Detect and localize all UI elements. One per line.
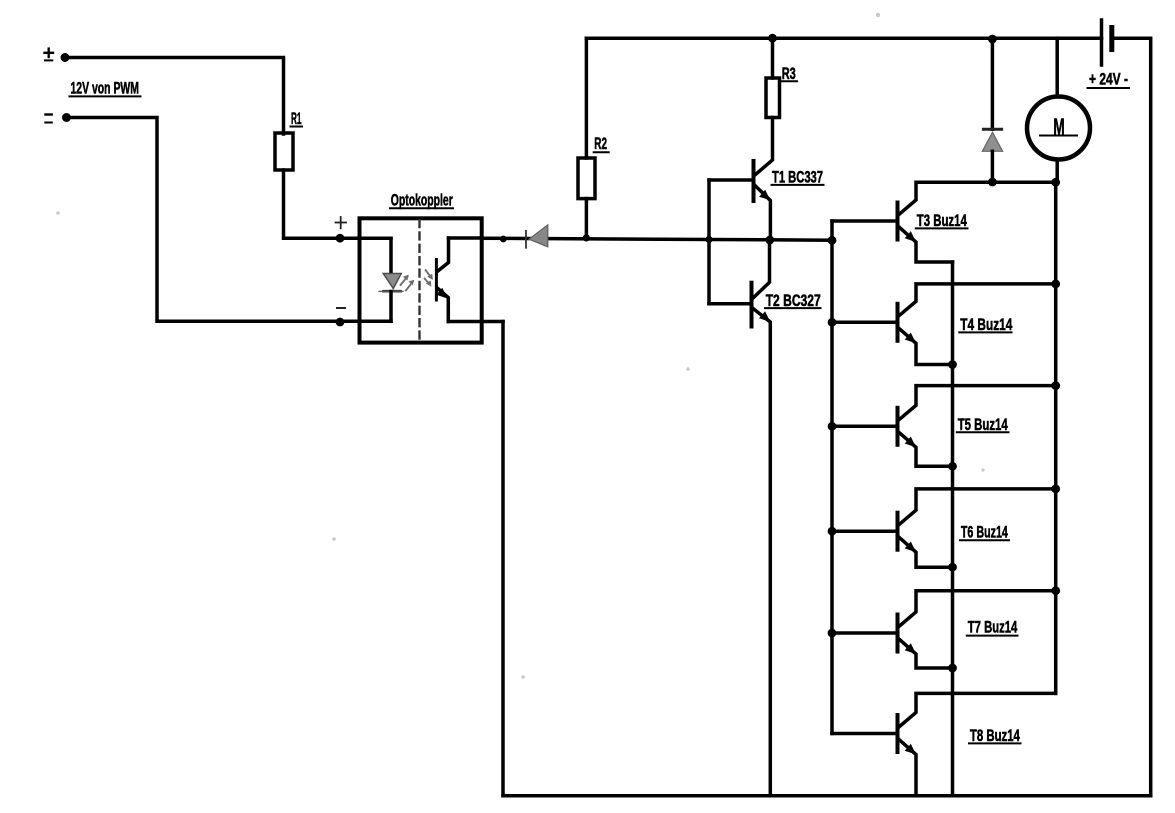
node drain rail dots (1051, 178, 1060, 595)
transistor T2 base wire (709, 302, 752, 306)
diode D2 cathode bar (525, 231, 527, 248)
node emitter output junction (765, 236, 774, 245)
wire base bus T1-T2 (707, 180, 711, 304)
resistor R3 top wire (771, 38, 775, 78)
node T7 base dot (828, 629, 837, 638)
transistor T1 emitter (756, 186, 771, 239)
MOSFET T7 group (832, 591, 1056, 668)
phototransistor emitter (438, 289, 449, 322)
node R2 junction dot (583, 234, 590, 241)
node optocoupler anode pin dot (336, 234, 345, 243)
transistor T2 collector down (753, 309, 770, 796)
node D3 bottom dot (988, 178, 997, 187)
wire phototransistor collector to output (449, 236, 483, 240)
node D3 top rail dot (988, 35, 997, 44)
resistor R1 (275, 133, 293, 170)
MOSFET T6 group (832, 489, 1056, 567)
motor M bottom wire (1055, 160, 1059, 183)
label Optokoppler (391, 191, 453, 210)
wire phototransistor emitter out of box (448, 320, 503, 324)
terminal + (12V input plus) (45, 49, 54, 61)
wire from + terminal to R1 top (65, 58, 284, 135)
wire bottom rail (503, 794, 1151, 798)
svg-text:T7 Buz14: T7 Buz14 (968, 618, 1018, 637)
label T8 Buz14 (970, 726, 1020, 745)
battery B1 positive plate (1100, 20, 1104, 65)
svg-text:+ 24V -: + 24V - (1089, 69, 1128, 88)
transistor T1 base bar (752, 161, 756, 201)
label T5 Buz14 (958, 415, 1008, 434)
transistor T2 collector arrow (759, 311, 770, 322)
svg-text:T5 Buz14: T5 Buz14 (958, 415, 1008, 434)
flyback diode D3 cathode bar (983, 128, 1001, 131)
wire battery to right rail (1112, 38, 1151, 796)
transistor T2 base bar (750, 283, 754, 327)
resistor R3 (766, 78, 780, 118)
wire drain rail (1054, 182, 1058, 693)
svg-text:R3: R3 (782, 64, 796, 83)
node source bus dots (948, 360, 957, 672)
optocoupler internal dashed divider (418, 220, 420, 341)
node plus terminal dot (61, 53, 70, 62)
label R1 (291, 109, 302, 128)
transistor T1 base wire (709, 178, 754, 182)
resistor R2 top wire (585, 38, 589, 158)
label + 24V - (1089, 69, 1128, 88)
svg-text:R2: R2 (594, 134, 607, 153)
light arrows into phototransistor (425, 270, 432, 284)
wire R3 bottom to T1 collector (756, 118, 773, 175)
LED D1 cathode lead (389, 292, 393, 322)
label T3 Buz14 (917, 211, 967, 230)
svg-text:R1: R1 (291, 109, 302, 128)
label 12V von PWM (71, 78, 140, 97)
label T1 BC337 (772, 168, 823, 187)
pin label + at optocoupler (336, 217, 347, 228)
label M (1053, 113, 1065, 139)
light arrows from LED (401, 277, 413, 291)
label T2 BC327 (766, 291, 821, 310)
svg-text:T6 Buz14: T6 Buz14 (961, 523, 1008, 542)
MOSFET T5 group (832, 386, 1056, 467)
transistor T2 emitter up (753, 240, 770, 298)
svg-text:T3 Buz14: T3 Buz14 (917, 211, 967, 230)
label T6 Buz14 (961, 523, 1008, 542)
node R3 top rail dot (768, 34, 777, 43)
flyback diode D3 bottom lead (991, 151, 995, 182)
svg-text:T1 BC337: T1 BC337 (772, 168, 823, 187)
terminal - (12V input minus) (45, 115, 52, 123)
phototransistor base bar (435, 260, 438, 301)
svg-text:T4 Buz14: T4 Buz14 (960, 315, 1012, 334)
node T5 base dot (828, 422, 837, 431)
label R2 (594, 134, 607, 153)
wire gate bus vertical (830, 221, 834, 734)
label T7 Buz14 (968, 618, 1018, 637)
wire top supply rail (586, 36, 1101, 40)
node dot after optocoupler (500, 236, 507, 243)
svg-text:12V von PWM: 12V von PWM (71, 78, 140, 97)
resistor R2 bottom wire (585, 199, 589, 239)
node optocoupler cathode pin dot (336, 318, 345, 327)
wire emitter down to bottom rail (501, 322, 505, 796)
motor M circle (1027, 97, 1090, 160)
flyback diode D3 triangle (982, 132, 1002, 151)
wire main signal line to gate bus (482, 238, 832, 240)
optocoupler U1 box (360, 218, 482, 342)
phototransistor collector (438, 238, 449, 271)
LED D1 cathode bar (384, 290, 401, 293)
transistor T1 emitter arrow (759, 190, 770, 201)
resistor R2 (578, 158, 595, 199)
MOSFET T8 group (832, 693, 1056, 795)
diode D2 triangle (529, 225, 548, 247)
MOSFET T4 group (832, 284, 1056, 365)
wire R1 bottom to optocoupler anode pin (284, 170, 392, 238)
battery B1 negative plate (1109, 28, 1114, 50)
svg-text:T8 Buz14: T8 Buz14 (970, 726, 1020, 745)
LED D1 anode lead (389, 238, 393, 274)
node T6 base dot (828, 527, 837, 536)
node T4 base dot (828, 318, 837, 327)
node base bus junction (705, 236, 712, 243)
MOSFET T3 group (832, 182, 1056, 262)
wire source bus (951, 262, 955, 796)
label R3 (782, 64, 796, 83)
phototransistor emitter arrow (436, 288, 447, 299)
node minus terminal dot (62, 113, 71, 122)
LED D1 triangle (383, 273, 401, 288)
svg-text:Optokoppler: Optokoppler (391, 191, 453, 210)
motor M top wire (1055, 38, 1059, 96)
flyback diode D3 top lead (991, 38, 995, 129)
pin label - at optocoupler (337, 307, 345, 309)
wire from - terminal down and to optocoupler cathode pin (67, 118, 392, 322)
label T4 Buz14 (960, 315, 1012, 334)
scan specks (56, 13, 984, 679)
node gate bus input junction (828, 236, 837, 245)
